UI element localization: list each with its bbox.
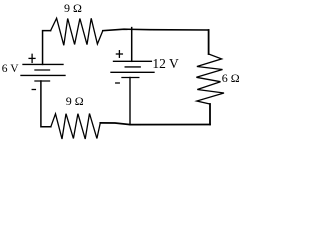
wire bottom-left corner + left branch bottom — [41, 81, 51, 127]
wire middle branch bottom — [129, 78, 131, 125]
battery B1 plus sign — [29, 57, 35, 59]
svg-text:6 V: 6 V — [2, 63, 19, 75]
battery B1 6V plate long top — [23, 63, 63, 65]
wire right branch top — [208, 30, 210, 54]
battery B2 12V plate short — [125, 66, 140, 68]
wire middle branch top (tip pokes above top wire) — [131, 28, 133, 62]
svg-text:9 Ω: 9 Ω — [66, 94, 84, 108]
battery B2 12V plate long bottom — [111, 71, 154, 73]
battery B2 12V plate short bottom — [122, 77, 139, 79]
battery B1 6V plate long bottom — [21, 74, 65, 76]
wire right branch bottom — [209, 104, 211, 124]
battery B1 minus sign — [32, 89, 35, 91]
svg-text:9 Ω: 9 Ω — [64, 1, 82, 15]
battery B1 6V plate short — [35, 69, 50, 71]
svg-text:12 V: 12 V — [152, 56, 179, 71]
wire top horizontal — [103, 29, 209, 31]
battery B1 6V plate short bottom — [35, 80, 50, 82]
battery B2 plus sign — [116, 53, 122, 55]
resistor R2 9ohm bottom zigzag — [51, 114, 101, 140]
svg-text:6 Ω: 6 Ω — [222, 71, 240, 85]
resistor R1 9ohm top zigzag — [51, 18, 103, 45]
resistor R3 6ohm right zigzag — [196, 54, 224, 104]
wire left branch top + top-left corner — [43, 31, 51, 65]
battery B2 minus sign — [116, 82, 120, 84]
battery B2 12V plate long top — [114, 60, 152, 62]
wire bottom (right section) — [100, 123, 210, 125]
